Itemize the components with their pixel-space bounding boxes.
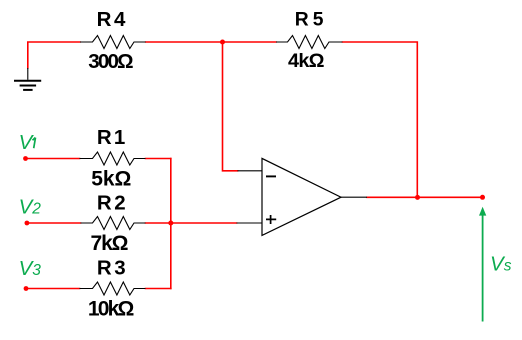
svg-text:R5: R5: [295, 10, 328, 31]
svg-text:7kΩ: 7kΩ: [91, 232, 129, 255]
svg-text:R2: R2: [97, 191, 128, 214]
svg-text:R1: R1: [97, 126, 128, 149]
svg-text:300Ω: 300Ω: [88, 50, 133, 73]
svg-text:R4: R4: [97, 8, 128, 31]
svg-text:10kΩ: 10kΩ: [88, 298, 134, 321]
svg-text:5kΩ: 5kΩ: [91, 168, 131, 191]
svg-text:V: V: [19, 131, 35, 154]
svg-text:4kΩ: 4kΩ: [288, 50, 325, 72]
svg-text:R3: R3: [97, 256, 128, 279]
